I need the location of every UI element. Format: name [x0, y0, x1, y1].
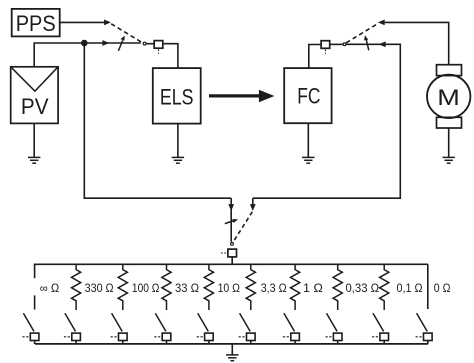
wire TP2 to switch S2 common: [330, 43, 343, 45]
motor M brush (top): [437, 65, 462, 76]
knife switch K9 (open): [372, 313, 389, 344]
resistor R1 330Ω: [72, 264, 81, 310]
svg-text:330 Ω: 330 Ω: [85, 282, 114, 295]
wire TP3 to load bank: [231, 257, 233, 264]
switch S2 upper throw to motor (open, dashed): [346, 24, 376, 43]
switch S1 blade arrow (closed to PV): [118, 36, 124, 51]
svg-text:M: M: [437, 85, 460, 110]
switch S1 upper throw to PPS (open, dashed): [111, 24, 142, 43]
wire FC to ground: [307, 123, 309, 157]
knife switch K4 (open): [154, 313, 171, 344]
wire right load bus: [253, 197, 401, 199]
svg-text:100 Ω: 100 Ω: [132, 282, 160, 295]
svg-text:1 Ω: 1 Ω: [303, 282, 323, 295]
switch S3 left throw from left bus: [228, 198, 234, 242]
svg-text:3,3 Ω: 3,3 Ω: [261, 282, 287, 295]
resistor R4 10Ω: [204, 264, 213, 310]
ground (ELS): [172, 157, 184, 163]
wire left load bus: [84, 197, 232, 199]
terminal TP1: [154, 41, 163, 54]
svg-text:∞ Ω: ∞ Ω: [40, 282, 60, 295]
switch S2 common contact: [343, 43, 346, 46]
knife switch K2 (open): [64, 313, 81, 344]
resistor R3 33Ω: [162, 264, 171, 310]
electrolyser ELS: [153, 68, 201, 124]
knife switch K5 (open): [197, 313, 214, 344]
ground (FC): [302, 157, 314, 163]
switch S3 blade arrow (closed to left bus): [225, 219, 238, 224]
wire bottom bus to ground: [231, 344, 233, 355]
wire FC output to terminal TP2: [309, 45, 321, 69]
wire S2 to load bus (right): [346, 41, 400, 198]
resistor R6 1Ω: [291, 264, 300, 310]
motor M brush (bottom): [437, 117, 462, 128]
knife switch K10 (open): [416, 313, 433, 344]
switch S3 common contact: [231, 242, 234, 245]
switch S3 right throw from right bus (open, dashed): [233, 198, 255, 242]
svg-text:33 Ω: 33 Ω: [175, 282, 199, 295]
branch 0 Ω (short circuit wire): [427, 264, 429, 309]
wire M to ground: [448, 128, 450, 157]
power supply PPS: [12, 9, 60, 37]
load bank bottom bus: [35, 343, 428, 345]
branch ∞ Ω (open circuit, dashed): [34, 264, 36, 309]
svg-text:FC: FC: [297, 83, 320, 108]
wire PV bus vertical (J1 to left bus): [83, 43, 85, 198]
svg-text:PPS: PPS: [16, 11, 56, 36]
knife switch K3 (open): [111, 313, 128, 344]
resistor R5 3,3Ω: [246, 264, 255, 310]
resistor R2 100Ω: [118, 264, 127, 310]
svg-text:0,33 Ω: 0,33 Ω: [346, 282, 380, 295]
svg-text:10 Ω: 10 Ω: [218, 282, 241, 295]
wire TP1 to ELS input: [163, 44, 178, 68]
knife switch K6 (open): [239, 313, 256, 344]
terminal TP2: [321, 41, 330, 54]
fuel cell FC: [284, 68, 331, 123]
wire PV negative to ground: [33, 123, 35, 157]
switch S1 common contact: [143, 42, 146, 45]
wire PPS output to switch S1: [60, 20, 111, 26]
knife switch K1 (open): [22, 313, 39, 344]
switch S2 blade arrow (closed to load): [364, 35, 369, 50]
node junction J1 (PV / load bus): [81, 40, 88, 47]
load bank top bus: [34, 263, 428, 265]
svg-text:PV: PV: [21, 94, 49, 119]
knife switch K7 (open): [283, 313, 300, 344]
resistor R8 0,1Ω: [380, 264, 389, 310]
knife switch K8 (open): [326, 313, 343, 344]
motor M: [427, 75, 470, 118]
ground (PV): [28, 157, 40, 163]
ground (load bank): [226, 355, 238, 361]
wire S1 common to terminal TP1: [147, 43, 155, 45]
ground (M): [443, 157, 455, 163]
solar module PV: [11, 67, 58, 124]
svg-text:ELS: ELS: [160, 84, 194, 109]
resistor R7 0,33Ω: [333, 264, 342, 310]
svg-text:0,1 Ω: 0,1 Ω: [397, 282, 423, 295]
arrow ELS to FC (hydrogen flow): [209, 90, 274, 103]
svg-text:0 Ω: 0 Ω: [434, 282, 451, 295]
wire PV positive to switch S1: [34, 40, 141, 67]
terminal TP3: [221, 249, 237, 257]
wire ELS to ground: [177, 124, 179, 158]
wire motor to switch S2: [378, 20, 449, 65]
